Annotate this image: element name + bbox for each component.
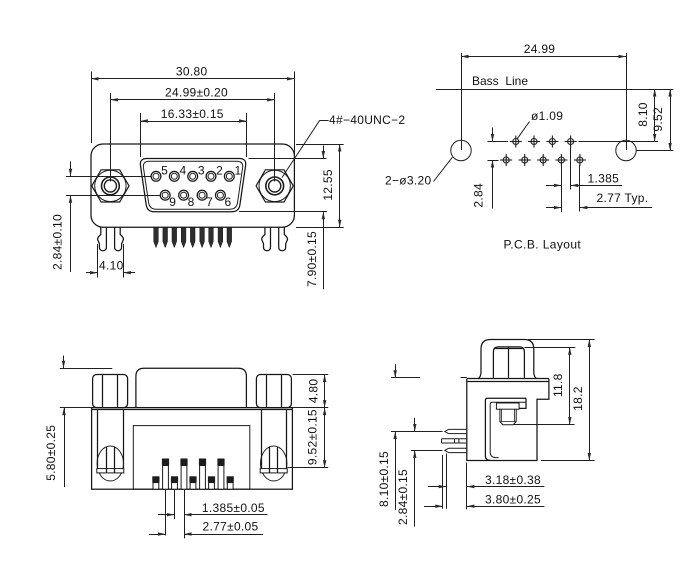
view3 left jack screw circle [97, 446, 123, 481]
view4 insulator recess inner line [490, 402, 526, 457]
view2 label 2-ø3.20 with leader [434, 157, 453, 181]
view1 solder pin spike at x=220.4 [218, 227, 223, 247]
view3 connector body rectangle [92, 408, 293, 490]
svg-text:5.80±0.25: 5.80±0.25 [44, 425, 58, 481]
view3 dimension 9.52±0.15 [293, 407, 329, 409]
view1 board lock prong left at x=110.5 [98, 227, 107, 250]
view3 front-row pin at x=230.2 [227, 476, 234, 482]
view1 board lock prong left at x=274.6 [262, 227, 271, 250]
svg-text:2.84±0.10: 2.84±0.10 [51, 214, 65, 270]
view3 right jack screw barrel [261, 410, 263, 469]
view4 pin 3 side view [445, 448, 467, 452]
view2 pin hole ø1.09 top row x=552.4 [546, 136, 558, 148]
view2 top row center line segments [488, 141, 509, 143]
view2 pin hole ø1.09 top row x=570.6 [565, 136, 577, 148]
view1 socket pin 4 circle [169, 171, 179, 181]
svg-text:Bass Line: Bass Line [472, 74, 528, 88]
svg-text:4.10: 4.10 [99, 259, 124, 273]
view3 front-row pin at x=174.5 [171, 476, 178, 482]
view3 shell outline from below [136, 368, 247, 407]
view2 pin hole ø1.09 bottom row x=506.2 [500, 154, 512, 166]
view2 dimension 1.385 [570, 146, 572, 190]
view2 dimension 8.10 [654, 89, 656, 142]
view3 dimension 4.80 [293, 374, 329, 376]
svg-text:11.8: 11.8 [551, 373, 565, 397]
svg-text:5: 5 [161, 164, 168, 178]
view1 socket pin 8 circle [179, 190, 189, 200]
view1 solder pin spike at x=192.7 [190, 227, 195, 247]
view1 left jack-screw hex nut [95, 170, 126, 201]
view1 dimension 4.10 [97, 244, 99, 278]
view4 body top flange double line [467, 378, 549, 380]
svg-text:9.52±0.15: 9.52±0.15 [306, 409, 320, 465]
view3 back-row pin at x=165.5 [162, 459, 169, 466]
view4 dimension 18.2 [528, 339, 595, 341]
view2 label ø1.09 with leader [517, 122, 529, 139]
svg-text:4: 4 [179, 164, 186, 178]
svg-text:12.55: 12.55 [321, 169, 335, 201]
svg-text:16.33±0.15: 16.33±0.15 [161, 107, 224, 121]
svg-text:2.77 Typ.: 2.77 Typ. [597, 191, 649, 205]
view4 dimension 8.10±0.15 [391, 377, 420, 379]
svg-text:2.84: 2.84 [472, 183, 486, 208]
view1 dimension 24.99±0.20 [110, 93, 112, 182]
view4 jack screw arch silhouette [478, 340, 536, 379]
view2 mounting hole right [616, 140, 636, 160]
view2 bottom row center line segment [488, 160, 499, 162]
view1 solder pin spike at x=183.6 [181, 227, 186, 247]
svg-text:9: 9 [169, 195, 176, 209]
svg-text:2−ø3.20: 2−ø3.20 [385, 173, 431, 187]
view4 dimension 3.80±0.25 [442, 455, 444, 509]
view3 insulator inner rectangle [133, 426, 250, 490]
svg-text:3: 3 [198, 164, 205, 178]
view1 socket pin 3 circle [188, 171, 198, 181]
svg-text:3.18±0.38: 3.18±0.38 [485, 473, 541, 487]
svg-text:4.80: 4.80 [306, 379, 320, 404]
view1 solder pin spike at x=156.0 [154, 227, 159, 247]
view2 pin hole ø1.09 top row x=534.0 [528, 136, 540, 148]
view2 dimension 9.52 [637, 150, 674, 152]
view4 body outline [467, 379, 549, 461]
svg-text:4#−40UNC−2: 4#−40UNC−2 [329, 113, 405, 127]
view2 mounting hole left 2-ø3.20 [451, 140, 471, 160]
view4 screw contact body [500, 409, 516, 425]
view3 dimension 1.385±0.05 [174, 490, 176, 519]
view2 pin hole ø1.09 bottom row x=561.4 [555, 154, 567, 166]
svg-text:1.385: 1.385 [588, 172, 620, 186]
view1 dimension 30.80 [91, 72, 93, 144]
view1 solder pin spike at x=174.3 [172, 227, 177, 247]
view2 pin hole ø1.09 bottom row x=579.9 [574, 154, 586, 166]
svg-text:8: 8 [188, 195, 195, 209]
view1 socket pin 1 circle [224, 171, 234, 181]
view3 right jack screw slot and bar [260, 469, 287, 473]
view3 right jack screw circle [261, 446, 287, 481]
view3 front-row pin at x=211.5 [208, 476, 215, 482]
view3 left jack screw slot and bar [97, 469, 124, 473]
view4 dimension 11.8 [525, 347, 576, 349]
view4 pin 2 side view [442, 439, 467, 443]
svg-text:2.84±0.15: 2.84±0.15 [396, 469, 410, 525]
view1 socket pin 7 circle [197, 190, 207, 200]
view1 D-sub face outer outline [140, 159, 245, 212]
svg-text:3.80±0.25: 3.80±0.25 [485, 493, 541, 507]
view4 hex nut side view [493, 347, 524, 379]
view3 left hex nut side view [93, 375, 128, 408]
view1 solder pin spike at x=229.3 [227, 227, 232, 247]
view1 right jack-screw hex nut [259, 170, 290, 201]
view3 front-row pin at x=155.9 [152, 476, 159, 482]
svg-text:8.10: 8.10 [636, 102, 650, 127]
view1 socket pin 2 circle [206, 171, 216, 181]
view2 dimension 24.99 [461, 53, 463, 150]
view3 left jack screw barrel [97, 410, 99, 469]
view2 pin hole ø1.09 top row x=515.8 [510, 136, 522, 148]
view1 board lock prong right at x=274.6 [279, 227, 288, 250]
view3 body flange inner line [92, 409, 293, 411]
view3 back-row pin at x=202.5 [199, 459, 206, 466]
svg-text:1: 1 [234, 164, 241, 178]
view1 dimension 16.33±0.15 [140, 113, 142, 157]
view3 back-row pin at x=221.0 [217, 459, 224, 466]
view1 label 4#-40UNC-2 with leader [320, 120, 329, 122]
svg-text:6: 6 [224, 195, 231, 209]
view2 pin hole ø1.09 bottom row x=524.7 [519, 154, 531, 166]
svg-text:ø1.09: ø1.09 [531, 109, 563, 123]
view1 solder pin spike at x=211.0 [209, 227, 214, 247]
view2 dimension 2.77 Typ. [579, 165, 581, 212]
svg-text:9.52: 9.52 [651, 107, 665, 132]
svg-text:1.385±0.05: 1.385±0.05 [202, 501, 265, 515]
svg-text:P.C.B. Layout: P.C.B. Layout [503, 237, 581, 251]
view1 solder pin spike at x=202.1 [200, 227, 205, 247]
view1 socket pin 5 circle [151, 171, 161, 181]
view4 dimension 2.84±0.15 [414, 418, 416, 432]
view4 pin 1 side view [445, 429, 467, 433]
view1 board lock prong right at x=110.5 [115, 227, 124, 250]
view1 dimension 12.55 [296, 144, 344, 146]
view2 dimension 2.84 [492, 128, 494, 142]
view1 socket pin 6 circle [216, 190, 226, 200]
svg-text:30.80: 30.80 [176, 64, 208, 78]
view3 back-row pin at x=184.0 [180, 459, 187, 466]
view1 D-sub face inner outline [143, 161, 242, 209]
view3 dimension 5.80±0.25 [60, 368, 113, 370]
svg-text:2: 2 [216, 164, 223, 178]
view3 dimension 2.77±0.05 [165, 490, 167, 536]
view2 pin hole ø1.09 bottom row x=543.2 [537, 154, 549, 166]
svg-text:7.90±0.15: 7.90±0.15 [305, 231, 319, 287]
svg-text:24.99: 24.99 [524, 42, 556, 56]
view4 insulator recess outer line [485, 398, 526, 460]
view4 recess right shelf [519, 398, 526, 408]
svg-text:2.77±0.05: 2.77±0.05 [203, 520, 259, 534]
view1 dimension 2.84±0.10 [66, 176, 151, 178]
view4 screw contact flange [496, 403, 519, 409]
svg-text:8.10±0.15: 8.10±0.15 [377, 451, 391, 507]
svg-text:24.99±0.20: 24.99±0.20 [165, 85, 228, 99]
view3 front-row pin at x=193.0 [189, 476, 196, 482]
view4 body edge extension line [466, 463, 468, 510]
svg-text:18.2: 18.2 [571, 386, 585, 411]
view1 connector body outline [91, 144, 294, 227]
view1 solder pin spike at x=165.2 [163, 227, 168, 247]
view1 dimension 7.90±0.15 [249, 158, 327, 160]
view1 socket pin 9 circle [160, 190, 170, 200]
view2 bass line [436, 89, 673, 91]
svg-text:7: 7 [206, 195, 213, 209]
view4 dimension 3.18±0.38 [446, 454, 448, 509]
view3 right hex nut side view [256, 375, 291, 408]
